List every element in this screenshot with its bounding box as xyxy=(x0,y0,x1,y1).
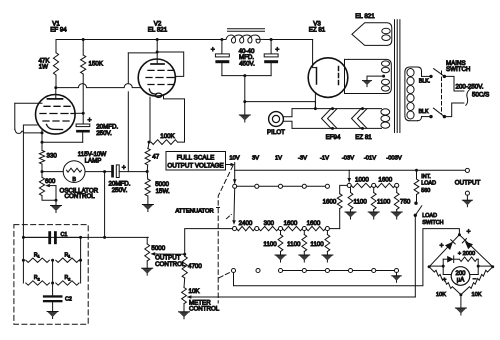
bridge edge bottom-right 10K xyxy=(461,267,493,295)
resistor 1600 (b) xyxy=(306,226,325,230)
node cathode junction xyxy=(41,130,43,151)
svg-text:3V: 3V xyxy=(252,156,259,162)
ground 1100 (b) xyxy=(299,255,310,261)
svg-text:ATTENUATOR: ATTENUATOR xyxy=(175,208,213,214)
wire V2 screen node down xyxy=(127,53,129,84)
node rail-V2 junction xyxy=(156,38,159,41)
pot 5000 wiper xyxy=(155,253,185,255)
wire B+ into V3 xyxy=(313,40,317,68)
svg-text:15W.: 15W. xyxy=(156,188,170,195)
resistor 100K xyxy=(148,141,151,144)
tube V1 grid rows xyxy=(44,105,70,107)
svg-text:5000: 5000 xyxy=(151,245,165,252)
svg-text:4700: 4700 xyxy=(188,263,202,270)
svg-text:250V.: 250V. xyxy=(112,187,128,194)
svg-text:CONTROL: CONTROL xyxy=(65,193,96,200)
wire C1 row sides down xyxy=(22,237,24,260)
svg-text:10K: 10K xyxy=(189,288,201,295)
svg-text:CONTROL: CONTROL xyxy=(155,261,186,268)
node deck C unused contact xyxy=(256,268,260,272)
node output ground terminal xyxy=(465,191,469,195)
svg-text:-003V: -003V xyxy=(386,156,402,162)
arrow full scale xyxy=(226,164,231,166)
resistor 1100 shunt (e) xyxy=(373,187,375,192)
capacitor 40-40 MFD 450V (a) xyxy=(221,40,223,54)
resistor R1 (b) xyxy=(56,258,79,262)
node R2 mid xyxy=(51,282,54,285)
resistor 300 xyxy=(259,226,279,230)
node deck A contacts xyxy=(255,184,259,188)
node rail-choke-cap junction xyxy=(220,38,223,41)
bridge edge top-left with diode xyxy=(429,235,459,267)
svg-text:SWITCH: SWITCH xyxy=(446,66,470,73)
svg-text:200: 200 xyxy=(455,271,466,277)
lamp pilot xyxy=(269,112,284,127)
wire load switch down to W1 xyxy=(414,215,416,297)
wire screen loop right xyxy=(157,52,184,76)
svg-text:450V.: 450V. xyxy=(239,61,255,68)
tube V2 cathode xyxy=(149,89,156,94)
wire primary to switch BLK bottom xyxy=(422,116,432,118)
wire to output terminal xyxy=(417,169,466,171)
svg-text:+: + xyxy=(466,229,470,236)
node deck C ground terminal xyxy=(394,268,398,272)
svg-text:1100: 1100 xyxy=(377,198,391,205)
svg-text:560: 560 xyxy=(421,188,430,194)
diode D2 xyxy=(465,241,473,249)
svg-text:100K: 100K xyxy=(160,133,175,140)
switch deck A arm xyxy=(233,179,237,183)
svg-text:LOAD: LOAD xyxy=(422,213,437,219)
wire 150K to screen junction xyxy=(82,74,84,113)
svg-text:INT.: INT. xyxy=(421,174,431,180)
node cathode-cap junction xyxy=(146,170,149,173)
svg-text:+: + xyxy=(211,47,215,54)
label full scale output voltage box xyxy=(166,152,226,171)
transformer LT winding 6.3V xyxy=(381,109,390,115)
resistor 1100 shunt (b) xyxy=(303,231,305,235)
svg-text:1600: 1600 xyxy=(284,220,298,227)
switch link dashed xyxy=(441,71,443,114)
resistor 1100 shunt (d) xyxy=(350,187,352,192)
wire row B to 1600 drop xyxy=(329,228,339,230)
ground bridge xyxy=(460,295,462,308)
resistor 1100 shunt (c) xyxy=(326,231,328,235)
svg-text:1100: 1100 xyxy=(354,198,368,205)
ground 5000 15W xyxy=(147,196,149,205)
heater EF94 chevron xyxy=(322,109,332,129)
svg-text:1600: 1600 xyxy=(307,220,321,227)
wire heater feed xyxy=(245,101,316,103)
capacitor 20MFD 250V coupling xyxy=(111,165,114,178)
node rail-150K junction xyxy=(82,38,85,41)
switch load xyxy=(414,202,417,205)
svg-text:300: 300 xyxy=(264,220,275,227)
wire choke to V3 xyxy=(265,39,313,41)
svg-text:EF94: EF94 xyxy=(326,134,341,141)
bridge edge top-right with diode xyxy=(459,235,492,267)
svg-text:FULL SCALE: FULL SCALE xyxy=(177,155,215,162)
wire bridge row xyxy=(23,236,148,238)
svg-text:R2: R2 xyxy=(64,275,70,281)
meter 200 uA xyxy=(443,274,451,276)
ground oscillator control xyxy=(55,200,57,205)
tube V2 plate xyxy=(156,40,158,65)
resistor 47K 1W xyxy=(55,40,57,53)
wire heater rail upper xyxy=(292,108,382,110)
wire pilot leads xyxy=(283,109,292,117)
resistor 4700 xyxy=(184,255,186,257)
svg-text:R1: R1 xyxy=(34,252,40,258)
tube V1 EF94 envelope xyxy=(36,95,76,135)
resistor 1000 (b) xyxy=(376,183,396,187)
diode D1 xyxy=(445,242,453,250)
node V2 screen takeoff xyxy=(156,51,159,54)
node V1 screen junction xyxy=(75,112,83,114)
svg-text:LOAD: LOAD xyxy=(421,180,436,186)
svg-text:10K: 10K xyxy=(436,292,446,298)
wire mains lead top xyxy=(444,76,464,91)
transformer core xyxy=(394,20,396,133)
inductor filter choke core xyxy=(228,28,265,30)
svg-text:-01V: -01V xyxy=(364,156,376,162)
svg-text:+: + xyxy=(275,47,279,54)
tube V3 plates xyxy=(316,68,318,84)
svg-text:10K: 10K xyxy=(472,292,482,298)
svg-text:250V.: 250V. xyxy=(96,130,112,137)
resistor 1600 (a) xyxy=(282,226,302,230)
heater EZ81 chevron xyxy=(352,109,362,129)
wire V3 cathode down to heater rail xyxy=(314,94,316,109)
resistor INT LOAD 560 xyxy=(416,170,418,179)
svg-text:OUTPUT VOLTAGE: OUTPUT VOLTAGE xyxy=(167,163,223,170)
wire V1 plate to V2 grid with hops xyxy=(56,84,141,88)
wire B+ top rail xyxy=(56,39,222,41)
wire cap to cathode row xyxy=(82,133,84,143)
boundary attenuator dashed xyxy=(217,166,234,304)
svg-text:1W: 1W xyxy=(39,64,48,71)
svg-text:150K: 150K xyxy=(89,61,104,68)
svg-text:OUTPUT: OUTPUT xyxy=(455,180,481,187)
resistor 750 shunt xyxy=(396,187,398,192)
ground PSU xyxy=(239,115,250,121)
node HT centre tap xyxy=(382,75,385,78)
switch deck C arm xyxy=(231,268,235,272)
potentiometer 5000 output control xyxy=(146,237,148,244)
svg-text:CONTROL: CONTROL xyxy=(189,306,220,313)
svg-text:1600: 1600 xyxy=(323,198,337,205)
ground 5000 pot xyxy=(146,261,148,268)
resistor 1100 shunt (a) xyxy=(280,231,282,235)
tube V1 cathode xyxy=(47,125,63,130)
node lamp row junction xyxy=(41,170,44,173)
node output hot terminal xyxy=(465,168,469,172)
svg-text:1000: 1000 xyxy=(355,177,369,184)
ground 1100 (d) xyxy=(345,212,356,218)
capacitor 20MFD 250V screen bypass xyxy=(82,113,84,124)
node bridge bottom vertex xyxy=(459,293,462,296)
wire mid column xyxy=(52,260,54,295)
ground 10K pot xyxy=(183,304,185,312)
svg-text:750: 750 xyxy=(400,198,411,205)
node bridge left vertex xyxy=(428,265,431,268)
ground deck C xyxy=(396,272,398,275)
resistor 2400 xyxy=(237,226,255,230)
ground HT centre tap xyxy=(367,76,384,81)
svg-text:1V: 1V xyxy=(275,156,282,162)
pot 600 wiper arrow xyxy=(49,185,57,187)
svg-text:EL 821: EL 821 xyxy=(355,13,375,20)
svg-text:EF 94: EF 94 xyxy=(50,27,67,34)
tube V2 grid rows xyxy=(148,69,174,71)
ground 1100 (a) xyxy=(275,255,286,261)
resistor 1600 series xyxy=(340,185,348,193)
wire R rows sides xyxy=(22,260,24,283)
svg-text:1100: 1100 xyxy=(287,241,301,248)
capacitor C2 xyxy=(43,295,63,297)
svg-text:+: + xyxy=(87,117,91,124)
svg-text:+: + xyxy=(439,242,443,249)
svg-text:EZ 81: EZ 81 xyxy=(309,27,326,34)
ground 1100 (c) xyxy=(322,255,333,261)
resistor R1 (a) xyxy=(22,259,25,262)
wire attenuator feed top xyxy=(234,163,236,184)
node lamp-cap junction xyxy=(103,170,106,173)
resistor 330 xyxy=(39,150,44,164)
wire V2 suppressor loop xyxy=(164,95,185,143)
wire PSU ground stem xyxy=(244,76,246,115)
svg-text:μA: μA xyxy=(457,278,464,284)
wire deck A bus xyxy=(237,185,328,187)
node deck C contacts xyxy=(278,268,282,272)
wire V2 cathode down xyxy=(149,97,151,142)
resistor R2 (a) xyxy=(26,281,50,285)
inductor filter choke xyxy=(222,35,265,43)
wire V1 cathode tap xyxy=(41,131,44,134)
svg-text:10V: 10V xyxy=(229,156,239,162)
wire primary to switch BLK top xyxy=(422,75,432,77)
svg-text:LAMP: LAMP xyxy=(85,158,102,165)
wire V1 g3 lead xyxy=(24,124,37,126)
resistor R2 (b) xyxy=(56,281,79,285)
wire deck C bus xyxy=(282,270,394,272)
svg-text:600: 600 xyxy=(45,178,56,185)
boundary frequency network dashed box xyxy=(14,225,88,325)
potentiometer 600 oscillator control xyxy=(39,177,44,195)
svg-text:R1: R1 xyxy=(64,252,70,258)
svg-text:B: B xyxy=(72,177,76,183)
svg-text:47: 47 xyxy=(152,153,159,160)
wire heater rail lower xyxy=(292,127,382,129)
svg-text:PILOT: PILOT xyxy=(267,129,285,136)
ground 750 xyxy=(391,212,402,218)
svg-text:BLK.: BLK. xyxy=(419,78,430,84)
switch deck B arm xyxy=(232,227,236,231)
transformer primary winding xyxy=(405,67,418,121)
node bridge right vertex xyxy=(491,265,494,268)
svg-text:1100: 1100 xyxy=(263,241,277,248)
node R1 mid xyxy=(51,259,54,262)
potentiometer 10K meter control xyxy=(183,278,186,288)
ground output xyxy=(466,195,468,200)
wire mains lead bottom xyxy=(444,103,464,117)
resistor 1000 (a) xyxy=(351,183,372,187)
resistor 47 xyxy=(148,142,149,148)
ground C2 xyxy=(52,302,54,311)
resistor 5000 15W xyxy=(146,172,149,180)
svg-text:EZ 81: EZ 81 xyxy=(355,134,372,141)
diode D3 xyxy=(443,258,447,260)
svg-text:EL 821: EL 821 xyxy=(148,27,168,34)
node V1 plate xyxy=(54,86,57,89)
wire PSU cap bottoms xyxy=(222,75,271,77)
resistor 150K xyxy=(82,40,84,56)
switch deck A link xyxy=(233,188,236,220)
transformer heater winding EL821 xyxy=(352,23,392,46)
brace mains xyxy=(466,89,471,106)
tube V1 plate xyxy=(55,88,57,99)
node int load top xyxy=(415,169,418,172)
wire bridge inner taps xyxy=(429,265,443,267)
wire inner rect xyxy=(442,259,444,274)
svg-text:1600: 1600 xyxy=(378,177,392,184)
svg-text:BLK: BLK xyxy=(419,109,429,115)
svg-text:1100: 1100 xyxy=(310,241,324,248)
node heater tap xyxy=(243,100,246,103)
switch arm 1000 deck xyxy=(348,170,350,182)
wire output control to deck B xyxy=(185,229,233,255)
svg-text:2400: 2400 xyxy=(239,220,253,227)
svg-text:-3V: -3V xyxy=(298,156,307,162)
svg-text:C2: C2 xyxy=(65,297,72,303)
lamp 115V-10W ballast B xyxy=(42,171,63,173)
switch mains pole 1 xyxy=(429,75,432,78)
switch mains pole 2 xyxy=(429,115,432,118)
wire grid net down to C1 xyxy=(22,125,24,237)
svg-text:-03V: -03V xyxy=(342,156,354,162)
node bridge top vertex xyxy=(458,233,461,236)
svg-text:+ 2000: + 2000 xyxy=(458,251,475,257)
bridge edge bottom-left 10K xyxy=(429,267,461,295)
svg-text:SWITCH: SWITCH xyxy=(422,220,443,226)
tube V3 EZ81 envelope xyxy=(308,58,348,98)
transformer HT winding to V3 xyxy=(349,59,392,93)
wire deck C arm to bridge W2 xyxy=(234,229,460,286)
wire V1 grid1 to feedback xyxy=(15,102,42,104)
tube V2 EL821 envelope xyxy=(138,59,175,96)
svg-text:-1V: -1V xyxy=(320,156,329,162)
pot 10K wiper W1 xyxy=(191,296,416,298)
svg-text:R2: R2 xyxy=(34,275,40,281)
svg-text:+: + xyxy=(122,164,126,171)
wire lamp node down to bridge row xyxy=(104,172,106,238)
capacitor C1 xyxy=(23,236,48,238)
svg-text:330: 330 xyxy=(47,153,58,160)
svg-text:50C/S: 50C/S xyxy=(472,92,489,99)
capacitor 40-40 MFD 450V (b) xyxy=(270,40,272,54)
ground 1100 (e) xyxy=(368,212,379,218)
resistor 2000 xyxy=(454,258,460,260)
